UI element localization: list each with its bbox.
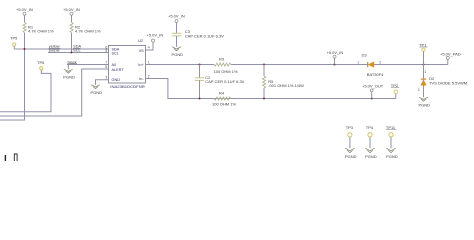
resistor R3 (214, 57, 238, 74)
wire ALERT to left exit (0, 69, 109, 116)
diode D2 TVS (418, 65, 468, 98)
IC U2 (105, 39, 149, 89)
svg-text:CAP CER 0.1UF 6.3V: CAP CER 0.1UF 6.3V (205, 79, 244, 84)
svg-text:+5.0V_IN: +5.0V_IN (168, 14, 185, 19)
junction R5 top (263, 64, 265, 66)
svg-text:INA23B1DCDFNR: INA23B1DCDFNR (110, 85, 145, 89)
resistor R5 (shunt) (263, 65, 304, 99)
svg-text:100 OHM 1%: 100 OHM 1% (214, 69, 238, 74)
svg-text:+5.0V_PAD: +5.0V_PAD (440, 52, 461, 57)
net label yellow (49, 44, 61, 49)
power +5.0V_IN (top wire) (327, 50, 344, 65)
svg-text:3: 3 (105, 76, 107, 80)
test point TP3 with PGND (345, 125, 357, 159)
svg-text:SCL: SCL (112, 51, 119, 55)
svg-text:8: 8 (105, 65, 107, 69)
svg-text:BAT30F4: BAT30F4 (367, 72, 384, 77)
diode D3 BAT30F4 (357, 52, 384, 77)
power +5.0V_IN (VS) (147, 33, 164, 42)
wire GND pin (96, 80, 109, 85)
svg-text:SCL: SCL (73, 47, 81, 52)
wire top (+5.0V_IN net) R3 to D3 (231, 64, 368, 66)
svg-text:4.7K OHM 1%: 4.7K OHM 1% (75, 29, 101, 34)
svg-text:purple: purple (49, 47, 60, 52)
wire R2 bottom to SCL net (71, 33, 73, 53)
power +5.0V_OUT (362, 84, 384, 99)
svg-text:+5.0V_OUT: +5.0V_OUT (362, 84, 384, 89)
svg-text:TVS DIODE 5.5VWM: TVS DIODE 5.5VWM (429, 80, 467, 85)
svg-text:+5.0V_IN: +5.0V_IN (63, 7, 80, 12)
test point TP5 (10, 35, 18, 49)
junction C2 bottom (199, 98, 201, 100)
resistor R2 (70, 22, 101, 33)
test point TP2 (391, 83, 400, 99)
power +5.0V_PAD (440, 52, 461, 65)
ground PGND (GND pin) (91, 85, 103, 95)
svg-text:PGND: PGND (91, 90, 103, 95)
junction +5.0V_IN stub (334, 64, 336, 66)
wire C3 bottom (176, 36, 178, 47)
wire top (+5.0V_PAD net) D3 to end (374, 64, 448, 66)
test point TP11 with PGND (386, 125, 398, 159)
svg-text:100 OHM 1%: 100 OHM 1% (212, 101, 236, 106)
svg-text:+5.0V_IN: +5.0V_IN (147, 33, 164, 38)
svg-text:PGND: PGND (386, 154, 398, 159)
svg-text:+5.0V_IN: +5.0V_IN (16, 7, 33, 12)
svg-text:CAP CER 0.1UF 6.3V: CAP CER 0.1UF 6.3V (185, 33, 224, 38)
svg-text:In-: In- (139, 77, 144, 81)
svg-text:D3: D3 (362, 52, 368, 57)
svg-text:7: 7 (105, 61, 107, 65)
svg-text:PGND: PGND (172, 52, 184, 57)
wire TP6 to left exit (0, 70, 51, 112)
sheet corner marks (5, 154, 17, 162)
wire In+ pin to R3 (146, 64, 215, 66)
svg-text:TP3: TP3 (346, 125, 354, 130)
ground PGND (black/A0 net) (63, 65, 75, 80)
ground PGND (D2) (419, 97, 431, 107)
test point TP4 with PGND (365, 125, 377, 159)
svg-text:TP2: TP2 (391, 83, 399, 88)
svg-text:2: 2 (418, 88, 420, 92)
net label black (68, 59, 78, 64)
net label purple (49, 47, 60, 52)
net label SCL (73, 47, 81, 52)
svg-text:1: 1 (357, 60, 359, 64)
wire In- pin to bottom rail (146, 79, 396, 99)
net label SDA (73, 44, 81, 49)
svg-text:2: 2 (379, 60, 381, 64)
capacitor C2 (195, 65, 245, 99)
svg-text:R3: R3 (219, 57, 225, 62)
svg-text:4: 4 (148, 45, 150, 49)
svg-text:VS: VS (139, 49, 145, 53)
svg-text:TP4: TP4 (366, 125, 374, 130)
wire VS pin (146, 42, 154, 50)
svg-text:TP1: TP1 (419, 42, 427, 47)
junction SCL/R2 (71, 52, 73, 54)
svg-text:PGND: PGND (345, 154, 357, 159)
svg-text:PGND: PGND (419, 102, 431, 107)
power +5.0V_IN (R2) (63, 7, 80, 22)
svg-text:ALERT: ALERT (112, 68, 125, 72)
wire SDA (yellow) (14, 48, 108, 50)
svg-text:R4: R4 (219, 91, 225, 96)
svg-text:1: 1 (424, 70, 426, 74)
svg-text:In+: In+ (138, 63, 144, 67)
svg-text:TP5: TP5 (10, 35, 18, 40)
svg-text:.001 OHM 1% 1/4W: .001 OHM 1% 1/4W (268, 83, 304, 88)
test point TP6 (37, 60, 45, 70)
junction +5.0V_OUT (371, 98, 373, 100)
junction C2 top (199, 64, 201, 66)
svg-text:TP11: TP11 (386, 125, 396, 130)
power +5.0V_IN (R1) (16, 7, 33, 22)
svg-text:4.7K OHM 1%: 4.7K OHM 1% (28, 29, 54, 34)
wire R1 bottom to SDA net, down to left exit (0, 33, 25, 120)
ground PGND (C3) (172, 47, 184, 57)
svg-text:black: black (68, 59, 77, 64)
test point TP1 (419, 42, 427, 64)
svg-text:PGND: PGND (63, 74, 75, 79)
svg-text:TP6: TP6 (37, 60, 45, 65)
svg-text:A0: A0 (112, 63, 117, 67)
junction TP1/D2 (423, 64, 425, 66)
wire black / A0 (67, 64, 109, 66)
junction SDA/R1 (24, 48, 26, 50)
svg-text:+5.0V_IN: +5.0V_IN (327, 50, 344, 55)
resistor R4 (212, 91, 236, 107)
svg-text:5: 5 (105, 49, 107, 53)
junction R5 bottom (263, 98, 265, 100)
svg-text:U2: U2 (138, 39, 143, 43)
svg-text:GND: GND (112, 78, 121, 82)
capacitor C3 (172, 29, 224, 38)
svg-text:PGND: PGND (365, 154, 377, 159)
wire SCL (purple) (48, 52, 109, 54)
power +5.0V_IN (C3) (168, 14, 185, 34)
resistor R1 (23, 22, 54, 33)
